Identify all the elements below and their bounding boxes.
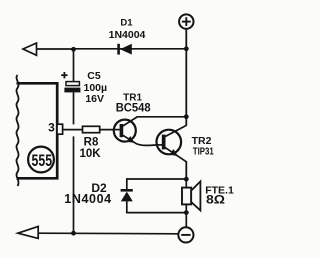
svg-text:C5: C5 bbox=[87, 70, 101, 82]
battery - terminal bbox=[178, 227, 193, 242]
wire D2 loop bottom bbox=[127, 212, 187, 214]
battery + terminal bbox=[179, 14, 193, 28]
svg-text:10K: 10K bbox=[79, 148, 101, 160]
svg-text:16V: 16V bbox=[85, 93, 104, 105]
svg-text:TIP31: TIP31 bbox=[193, 145, 214, 157]
label + of C5 bbox=[61, 72, 67, 78]
wire positive rail bbox=[185, 29, 187, 126]
transistor TR2 bbox=[157, 125, 187, 161]
svg-text:R8: R8 bbox=[84, 137, 99, 149]
wire D2 loop top bbox=[127, 178, 187, 180]
wire TR1 collector to rail bbox=[137, 116, 187, 118]
svg-text:3: 3 bbox=[48, 120, 55, 134]
node bottom rail (C5 tap) bbox=[71, 231, 76, 236]
node speaker bottom bbox=[184, 210, 189, 215]
wire speaker bottom to minus terminal bbox=[185, 213, 187, 228]
svg-text:8Ω: 8Ω bbox=[206, 193, 225, 207]
wire R8 to TR1 base bbox=[100, 129, 120, 131]
svg-text:BC548: BC548 bbox=[116, 100, 151, 114]
node speaker top bbox=[184, 177, 189, 182]
node rail at D1 wire bbox=[184, 46, 189, 51]
node junction top (C5 tap) bbox=[71, 47, 76, 52]
speaker FTE.1 bbox=[182, 179, 200, 212]
IC 555 circle bbox=[28, 147, 54, 173]
background paper bbox=[0, 0, 234, 258]
torn wavy edge of 555 box bbox=[16, 75, 18, 186]
wire bottom rail bbox=[38, 232, 178, 235]
svg-text:555: 555 bbox=[32, 152, 53, 170]
resistor R8 bbox=[83, 126, 100, 132]
IC 555 box (torn) bbox=[17, 83, 58, 178]
pin 3 stub bbox=[57, 124, 63, 134]
diode D2 bbox=[121, 178, 133, 213]
svg-text:1N4004: 1N4004 bbox=[109, 29, 146, 41]
capacitor C5 bbox=[64, 49, 80, 124]
svg-text:1N4004: 1N4004 bbox=[64, 192, 111, 206]
svg-text:D1: D1 bbox=[120, 17, 133, 28]
wire pin3 to R8 bbox=[63, 129, 83, 131]
wire top-left arrow to node bbox=[37, 48, 74, 50]
node rail at TR1 collector bbox=[184, 114, 189, 119]
connector arrow top-left bbox=[23, 43, 37, 55]
transistor TR1 bbox=[114, 117, 137, 143]
wire TR1 emitter to TR2 base bbox=[135, 143, 158, 146]
wire node to D1 to rail bbox=[74, 48, 187, 50]
diode D1 bbox=[117, 44, 132, 55]
wire C5 negative lead down to bottom rail (crossover gap) bbox=[73, 136, 75, 233]
connector arrow bottom-left bbox=[18, 226, 38, 238]
wire TR2 emitter down to speaker bbox=[185, 161, 187, 179]
